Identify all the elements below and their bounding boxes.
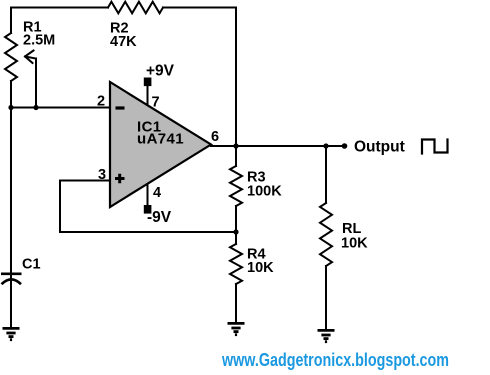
op-amp plus sign	[115, 174, 125, 184]
svg-text:www.Gadgetronicx.blogspot.com: www.Gadgetronicx.blogspot.com	[221, 350, 449, 370]
svg-text:+9V: +9V	[146, 63, 175, 80]
svg-text:6: 6	[211, 129, 219, 145]
resistor RL zigzag	[320, 203, 332, 266]
+9V supply square	[144, 78, 152, 87]
svg-text:100K: 100K	[247, 184, 282, 200]
wire R3 bottom to junction	[235, 206, 237, 244]
output terminal dot	[342, 143, 348, 149]
svg-text:3: 3	[98, 167, 106, 183]
resistor R4 zigzag	[230, 244, 242, 284]
wire R3 top stub	[235, 146, 237, 166]
svg-text:10K: 10K	[247, 260, 274, 276]
svg-text:Output: Output	[354, 139, 405, 156]
capacitor C1 top plate	[1, 272, 22, 275]
wire RL bottom to ground	[325, 266, 327, 330]
svg-text:2: 2	[97, 94, 105, 110]
op-amp U1 triangle	[110, 82, 211, 207]
junction dot wiper node	[33, 105, 38, 110]
wire horizontal node to pin 2	[11, 107, 110, 109]
svg-text:10K: 10K	[341, 236, 368, 252]
wire left vertical top	[10, 8, 12, 34]
wire output horizontal	[211, 145, 344, 147]
junction dot R3 R4 feedback node	[233, 229, 238, 234]
svg-text:47K: 47K	[110, 34, 137, 50]
op-amp minus sign	[116, 106, 125, 109]
svg-text:uA741: uA741	[137, 131, 184, 148]
R1 wiper wire vertical	[35, 59, 37, 108]
resistor R2 zigzag	[108, 2, 163, 14]
wire R4 bottom to ground	[235, 284, 237, 323]
wire RL branch top	[325, 146, 327, 203]
ground below R4	[228, 323, 245, 334]
wire pin 4 to -9V	[147, 184, 149, 206]
resistor R1 zigzag	[5, 33, 17, 81]
wire feedback left vertical	[59, 181, 61, 233]
junction dot RL node	[323, 143, 328, 148]
wire feedback bottom horizontal	[60, 231, 236, 233]
svg-text:4: 4	[153, 185, 161, 201]
junction dot output R3 node	[233, 143, 238, 148]
resistor R3 zigzag	[230, 166, 242, 206]
svg-text:-9V: -9V	[147, 209, 172, 226]
R1 wiper arrow	[25, 51, 36, 64]
svg-text:2.5M: 2.5M	[23, 33, 55, 49]
ground below C1	[3, 328, 20, 339]
junction dot left node	[8, 105, 13, 110]
-9V supply square	[144, 205, 152, 214]
ground below RL	[318, 330, 335, 341]
wire pin 3 stub	[60, 180, 110, 182]
svg-text:C1: C1	[22, 257, 41, 273]
wire right vertical from R2 to output node	[235, 8, 237, 147]
wire left vertical middle to C1 and ground	[10, 81, 12, 328]
wire pin 7 to +9V	[147, 86, 149, 106]
svg-text:7: 7	[152, 95, 160, 111]
wire top right segment	[163, 7, 236, 9]
wire top left segment	[11, 7, 108, 9]
output square wave symbol	[422, 140, 448, 154]
capacitor C1 curved plate	[2, 279, 22, 284]
